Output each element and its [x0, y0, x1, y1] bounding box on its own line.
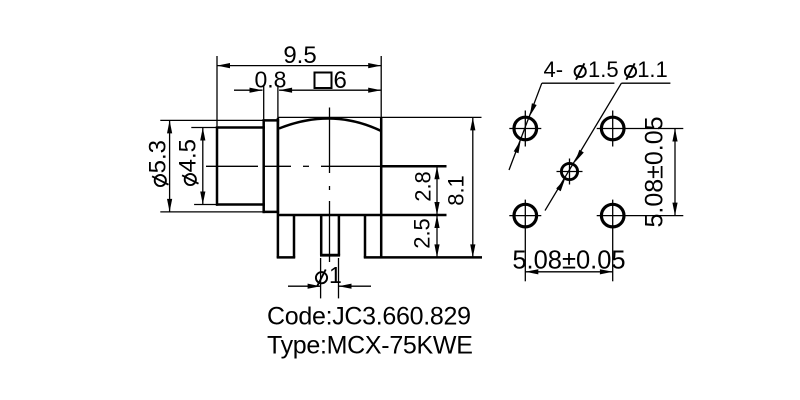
- dimension square-6 (body size): [279, 67, 381, 94]
- footprint hole H5 center (Ø1.1): [557, 159, 583, 185]
- svg-text:5.08±0.05: 5.08±0.05: [641, 116, 669, 227]
- left leg: [277, 215, 296, 258]
- footprint hole H4 bottom-right (Ø1.5): [597, 200, 684, 282]
- svg-text:1.5: 1.5: [588, 57, 619, 82]
- svg-text:9.5: 9.5: [283, 42, 316, 69]
- footprint hole H3 bottom-left (Ø1.5): [509, 200, 541, 282]
- dimension Ø4.5 (barrel diameter): [175, 128, 217, 205]
- wire: vertical centerline of body: [329, 108, 331, 263]
- dimension 2.8 (axis to body bottom): [411, 166, 440, 215]
- dimension 8.1 (overall height): [278, 117, 482, 257]
- svg-text:2.8: 2.8: [411, 171, 436, 202]
- leader and label Ø1.1: [545, 57, 670, 211]
- svg-text:5.08±0.05: 5.08±0.05: [512, 246, 625, 274]
- dimension 9.5 (overall length): [217, 42, 381, 126]
- svg-text:5.3: 5.3: [145, 140, 172, 173]
- dimension Ø1 (center pin diameter): [288, 258, 371, 298]
- dimension 5.08±0.05 vertical (right of footprint): [641, 116, 678, 227]
- svg-text:4.5: 4.5: [175, 139, 202, 172]
- svg-text:1: 1: [329, 262, 342, 288]
- dimension 0.8 (flange width): [234, 67, 286, 120]
- body bottom edge line with extension to the right: [278, 214, 447, 217]
- svg-text:8.1: 8.1: [444, 175, 469, 206]
- svg-text:6: 6: [334, 67, 347, 94]
- dimension 5.08±0.05 horizontal (bottom of footprint): [512, 246, 625, 274]
- body right face and right leg outer edge: [380, 118, 383, 258]
- dimension 2.5 (body bottom to leg tip): [410, 215, 440, 257]
- wire: horizontal axis centerline: [206, 165, 380, 167]
- svg-text:Code:JC3.660.829: Code:JC3.660.829: [267, 303, 471, 331]
- footprint hole H1 top-left (Ø1.5): [509, 111, 541, 147]
- footprint hole H2 top-right (Ø1.5): [597, 111, 684, 147]
- svg-text:1.1: 1.1: [637, 57, 668, 82]
- body top arc: [279, 118, 381, 131]
- flange (Ø5.3 collar): [263, 119, 280, 213]
- centerline thick extension right of body: [381, 165, 446, 168]
- center pin Ø1: [320, 215, 340, 256]
- body (square 6mm) left face and left leg outer edge: [277, 118, 280, 258]
- dimension Ø5.3 (flange diameter): [145, 120, 263, 211]
- connector barrel front face (Ø4.5 section): [216, 126, 265, 205]
- svg-text:Type:MCX-75KWE: Type:MCX-75KWE: [267, 331, 473, 359]
- right leg with bottom extension line to the right: [364, 215, 482, 258]
- svg-text:4-: 4-: [544, 57, 564, 82]
- svg-text:0.8: 0.8: [255, 67, 287, 93]
- svg-text:2.5: 2.5: [410, 218, 435, 249]
- leader and label 4-Ø1.5: [509, 57, 619, 170]
